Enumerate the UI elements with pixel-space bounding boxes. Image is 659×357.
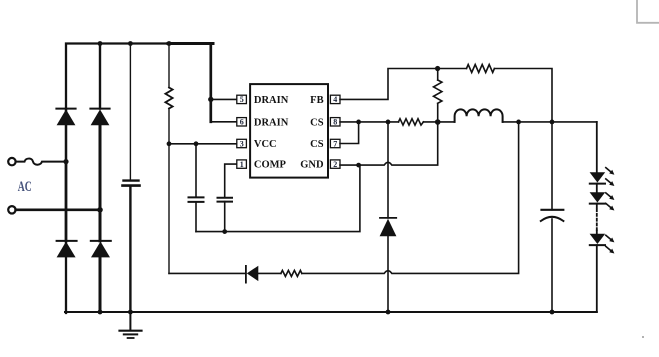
svg-text:CS: CS [310,139,324,150]
svg-text:6: 6 [240,118,244,127]
svg-text:FB: FB [310,95,323,106]
svg-text:CS: CS [310,117,324,128]
svg-text:1: 1 [240,160,244,169]
svg-text:COMP: COMP [254,160,287,171]
svg-text:5: 5 [240,95,244,104]
svg-text:AC: AC [18,179,32,195]
svg-text:GND: GND [300,160,324,171]
svg-text:2: 2 [333,160,337,169]
svg-text:DRAIN: DRAIN [254,95,289,106]
svg-text:DRAIN: DRAIN [254,117,289,128]
svg-text:8: 8 [333,118,337,127]
svg-text:4: 4 [333,95,337,104]
svg-text:3: 3 [240,139,244,148]
svg-text:VCC: VCC [254,139,277,150]
svg-text:7: 7 [333,139,337,148]
